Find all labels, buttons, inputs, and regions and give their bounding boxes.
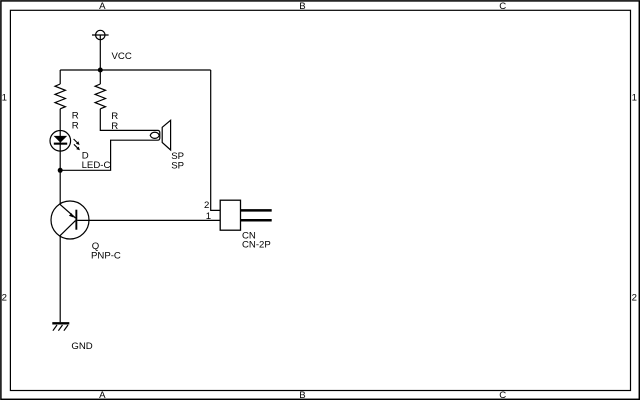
node junction at VCC rail [98,68,103,73]
svg-text:C: C [499,390,506,400]
svg-text:2: 2 [632,293,637,304]
wire rail to R1 [59,70,61,84]
svg-text:CN-2P: CN-2P [242,240,271,251]
power symbol VCC [92,30,109,39]
wire transistor base to connector pin1 [77,219,220,221]
svg-text:LED-C: LED-C [82,160,111,171]
svg-text:B: B [299,1,305,12]
svg-text:2: 2 [2,293,7,304]
svg-text:C: C [499,1,506,12]
wire speaker - to LED node [60,140,150,170]
svg-text:A: A [99,1,106,12]
svg-text:1: 1 [2,93,7,104]
svg-text:R: R [111,121,118,132]
svg-text:VCC: VCC [112,51,132,62]
wire VCC symbol to rail [99,35,101,70]
svg-text:B: B [299,390,305,400]
wire rail to R2 [99,70,101,84]
wire transistor collector to ground [59,236,61,323]
svg-text:1: 1 [632,93,637,104]
resistor R (left) [55,84,65,109]
speaker SP [150,120,170,150]
ground [52,323,69,330]
svg-text:PNP-C: PNP-C [91,251,121,262]
wire VCC rail [60,69,211,71]
wire R1 through LED to node [59,109,61,205]
svg-text:2: 2 [204,200,209,211]
svg-text:1: 1 [206,211,211,222]
wire R2 to speaker + [100,109,150,131]
svg-text:SP: SP [171,160,184,171]
transistor Q PNP-C [51,201,89,239]
diode D LED-C [50,131,80,152]
resistor R (middle) [95,84,105,109]
connector CN CN-2P [220,200,272,230]
svg-text:R: R [72,120,79,131]
wire rail to connector pin2 [211,70,221,210]
svg-text:A: A [99,390,106,400]
svg-text:GND: GND [71,341,92,352]
node junction at LED cathode [58,168,63,173]
